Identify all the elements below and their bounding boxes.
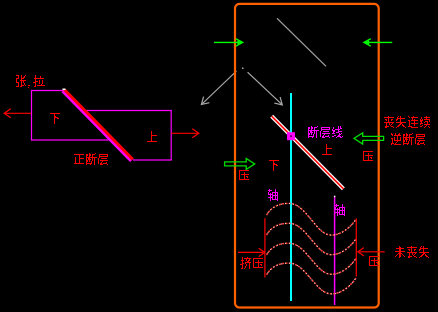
left red tension arrow — [4, 109, 31, 118]
folded stratum curve 4 — [267, 263, 357, 294]
normal fault plane (thick diagonal) magenta band — [63, 90, 132, 160]
green hollow arrow pointing left — [354, 133, 384, 144]
green compression arrow left — [214, 39, 243, 46]
gray junction dot — [242, 68, 244, 70]
white tip of axis line — [334, 196, 336, 198]
label 正断层 (normal fault) — [74, 153, 108, 165]
label 断层线 (fault line) — [308, 126, 343, 138]
label 轴 left (axis) — [268, 189, 278, 201]
folded stratum curve 3 — [267, 243, 357, 274]
label 压 upper right — [363, 151, 373, 161]
left fold bracket line — [264, 218, 266, 277]
right fold bracket line — [355, 218, 357, 276]
normal fault plane red core — [64, 90, 132, 160]
red squeeze arrow right — [358, 248, 385, 256]
green hollow arrow pointing right — [225, 158, 255, 169]
gray bedding line — [277, 18, 326, 66]
label 逆断层 (reverse fault) — [391, 133, 425, 145]
folded stratum curve 2 — [267, 223, 357, 254]
label 上 (upthrown) — [147, 131, 157, 142]
label 压 below left arrow — [239, 170, 249, 180]
fault line red core — [272, 116, 344, 189]
right red tension arrow — [171, 129, 199, 138]
orange panel frame — [235, 4, 379, 308]
gray arrow to left figure — [201, 71, 236, 105]
label 上 (hanging wall) — [322, 144, 332, 155]
red squeeze arrow left — [238, 248, 265, 256]
left fault block outline — [32, 91, 113, 141]
white tip of fault plane — [63, 89, 66, 91]
magenta syncline axis line — [334, 197, 336, 306]
magenta node marker — [287, 132, 295, 140]
label 压 right of folds — [369, 256, 379, 266]
label 下 (downthrown) — [50, 113, 60, 124]
fault line white ribbon — [272, 116, 344, 189]
gray arrow to right figure — [248, 72, 283, 105]
label 丧失连续 (continuity lost) — [384, 116, 430, 128]
right fault block outline — [84, 111, 171, 161]
label 张, 拉 (tension) — [16, 75, 45, 88]
green compression arrow right — [364, 39, 392, 46]
label 轴 right (axis) — [335, 204, 345, 216]
cyan anticline axis line — [290, 93, 292, 301]
folded stratum curve 1 — [267, 203, 357, 235]
label 未丧失 (not lost) — [395, 246, 429, 258]
label 下 (footwall) — [269, 160, 279, 171]
label 挤压 (squeeze) — [240, 257, 263, 269]
